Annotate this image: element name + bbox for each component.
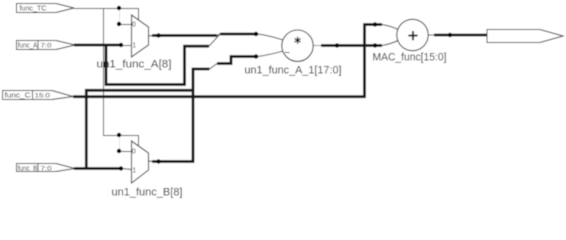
bus mux A output xyxy=(152,34,217,37)
wire func_TC branch to mux B select xyxy=(104,9,139,147)
glyph + xyxy=(408,31,417,40)
node TC/selA xyxy=(117,6,121,10)
wire into multiplier bottom pin xyxy=(258,51,283,56)
svg-text:func_C: func_C xyxy=(5,92,31,99)
wire mux B const stub xyxy=(119,151,132,153)
svg-text:un1_func_A_1[17:0]: un1_func_A_1[17:0] xyxy=(245,64,342,76)
wire faint link B xyxy=(119,136,121,152)
input port func_TC xyxy=(17,4,75,13)
node func_B tap xyxy=(119,166,123,170)
svg-text:0: 0 xyxy=(132,22,136,29)
input port func_A[7:0] xyxy=(17,41,76,50)
wire faint link A xyxy=(119,9,121,25)
svg-text:func_TC: func_TC xyxy=(20,4,48,13)
svg-text:7:0: 7:0 xyxy=(41,165,52,172)
output port MAC out xyxy=(487,30,563,43)
wire staircase diagonal xyxy=(210,64,218,70)
bus func_C to adder xyxy=(73,25,382,97)
thin net segments xyxy=(122,25,434,170)
bus multiplier output xyxy=(321,44,382,47)
wire func_B pin stub xyxy=(122,169,132,170)
node adder in bottom xyxy=(373,43,377,47)
node TC/selB xyxy=(117,133,121,137)
node adder out xyxy=(448,33,452,37)
node mux A out xyxy=(156,33,160,37)
wire func_A diagonal join xyxy=(209,34,220,46)
multiplier U3 un1_func_A_1 xyxy=(282,30,313,61)
node mux A in0 xyxy=(117,22,121,26)
bus mux B output and riser xyxy=(152,69,210,162)
adder U4 MAC_func xyxy=(397,19,428,50)
bus joined A input of multiplier xyxy=(220,33,258,36)
wire adder output stub xyxy=(428,34,434,36)
node adder in top xyxy=(373,22,377,26)
svg-text:MAC_func[15:0]: MAC_func[15:0] xyxy=(373,51,447,63)
node multiplier out xyxy=(335,43,339,47)
wire into multiplier top pin xyxy=(258,34,283,40)
wire mux A output stub xyxy=(149,35,154,38)
bus func_A xyxy=(73,25,487,169)
svg-text:1: 1 xyxy=(132,168,136,175)
bus adder output xyxy=(434,34,487,37)
wire mux B output stub xyxy=(149,160,154,163)
input port func_B[7:0] xyxy=(17,164,76,172)
input port func_C[15:0] xyxy=(3,91,74,100)
wire func_TC to mux A select xyxy=(74,9,139,152)
node func_A tap xyxy=(119,43,123,47)
svg-text:un1_func_A[8]: un1_func_A[8] xyxy=(97,59,172,71)
node bus B join xyxy=(254,54,258,58)
pin mark xyxy=(285,52,290,54)
svg-text:15:0: 15:0 xyxy=(35,92,51,99)
svg-text:un1_func_B[8]: un1_func_B[8] xyxy=(112,186,183,198)
svg-text:0: 0 xyxy=(132,149,136,156)
wire multiplier output stub xyxy=(313,45,321,47)
wire jog mux A out xyxy=(217,34,220,36)
node mux B in0 xyxy=(117,149,121,153)
svg-text:7:0: 7:0 xyxy=(41,43,52,50)
mux U1 un1_func_A[8] xyxy=(132,15,149,57)
svg-text:func_A: func_A xyxy=(18,43,38,50)
mux U2 un1_func_B[8] xyxy=(132,141,149,183)
svg-text:func_B: func_B xyxy=(18,165,38,172)
glyph * xyxy=(295,37,301,44)
wire into adder bottom pin xyxy=(382,41,398,46)
wire into adder top pin xyxy=(382,25,398,30)
node bus A join xyxy=(254,32,258,36)
wire func_A pin stub xyxy=(122,45,132,47)
bus func_B branch up xyxy=(86,90,193,168)
bus staircase to multiplier lower input xyxy=(217,57,258,64)
bus func_A branch to multiplier xyxy=(106,45,209,85)
wire mux A const stub xyxy=(119,24,132,26)
bus func_B xyxy=(74,167,122,170)
node mux B out xyxy=(156,159,160,163)
svg-text:1: 1 xyxy=(132,43,136,50)
